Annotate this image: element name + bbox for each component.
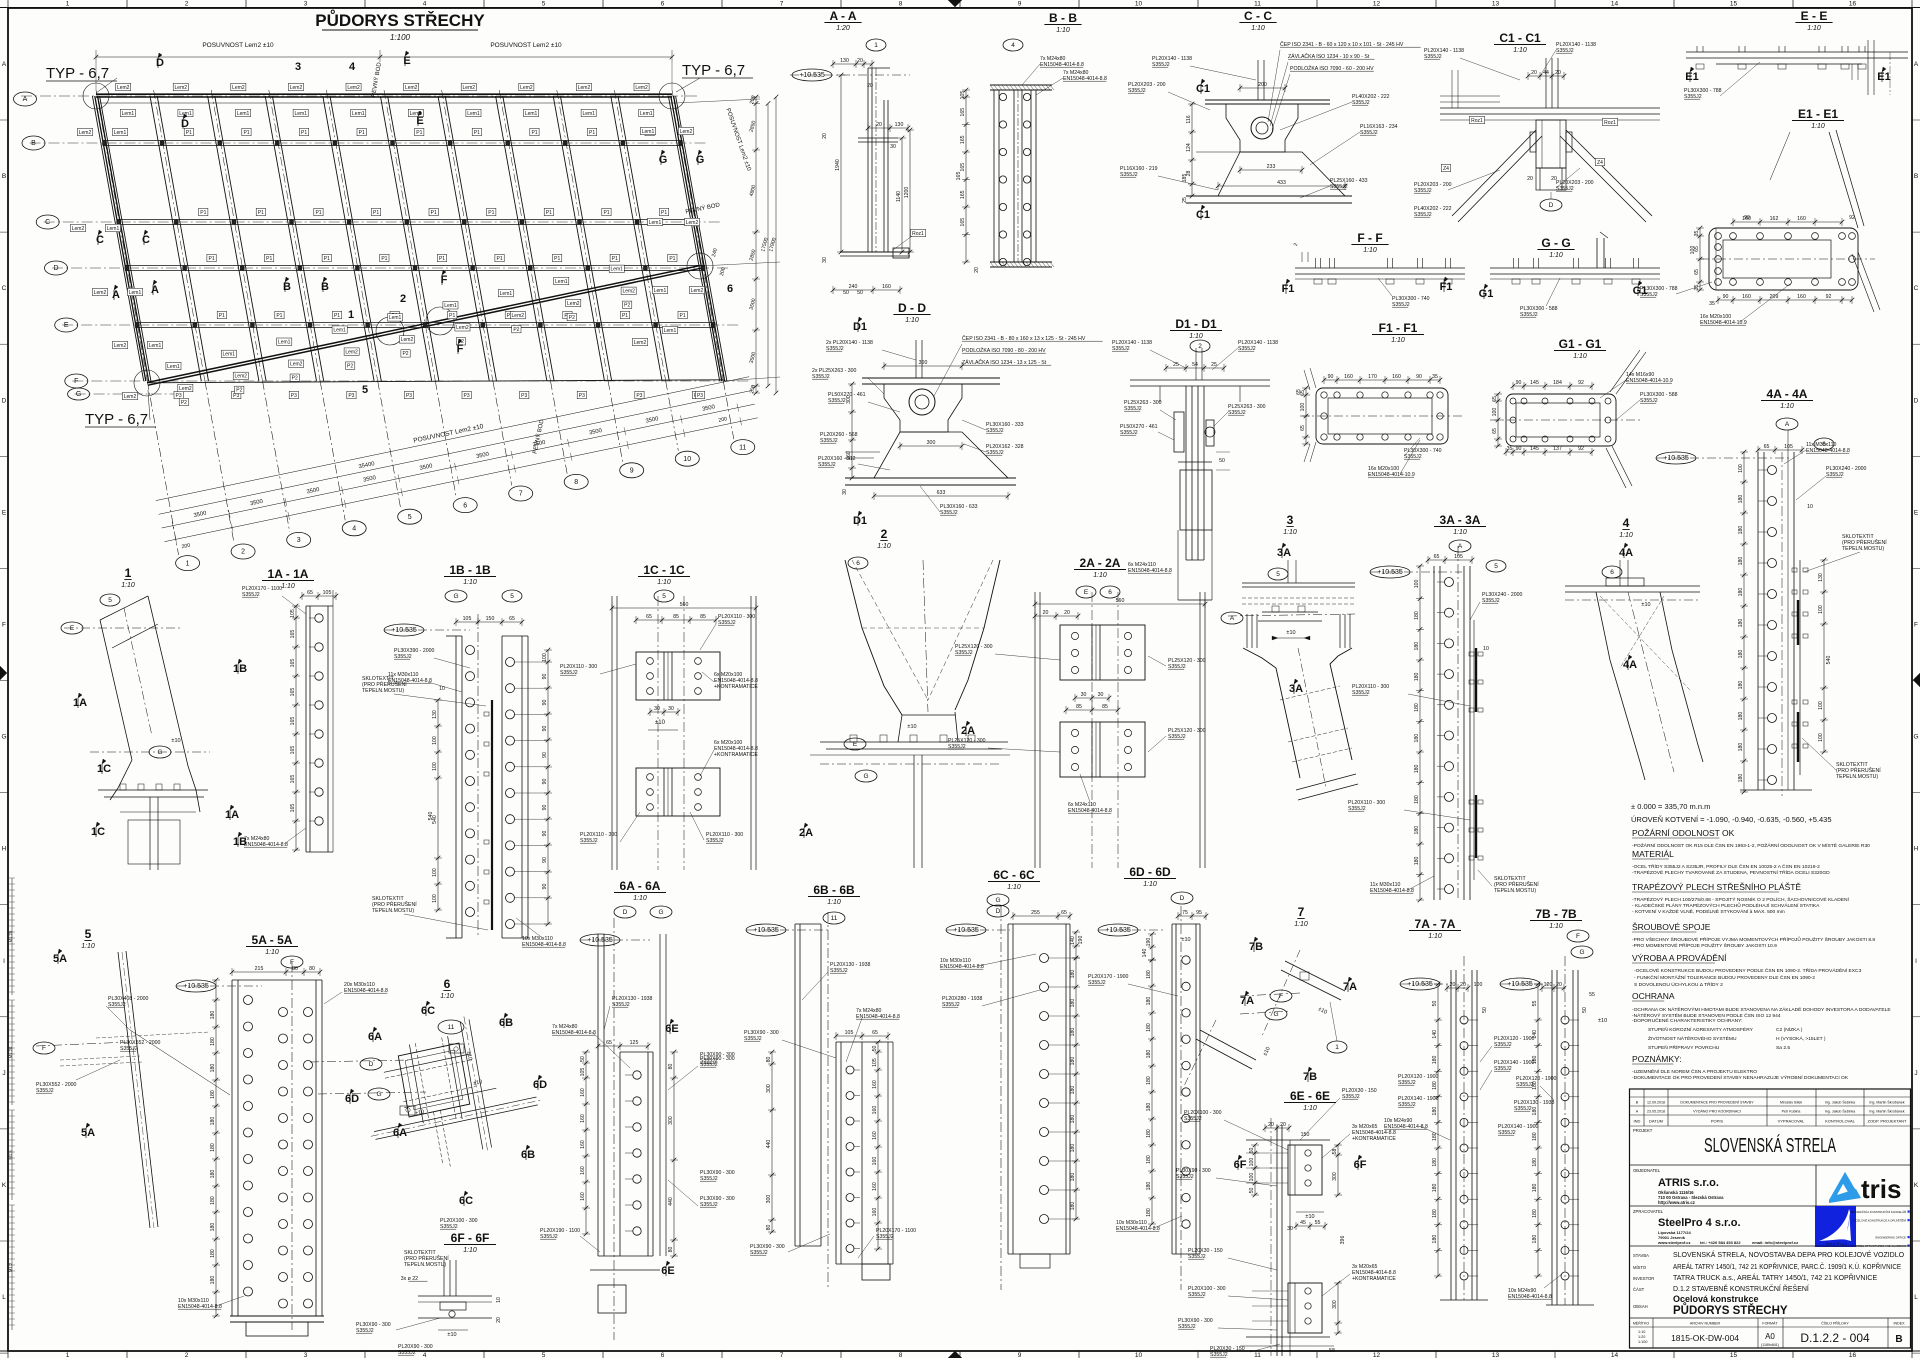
svg-text:http://www.atris.cz: http://www.atris.cz bbox=[1658, 1200, 1695, 1205]
svg-text:P1: P1 bbox=[449, 313, 455, 319]
svg-text:125: 125 bbox=[630, 1040, 639, 1046]
svg-text:C1: C1 bbox=[1196, 209, 1210, 221]
svg-text:180: 180 bbox=[1532, 1107, 1538, 1116]
svg-text:7B - 7B: 7B - 7B bbox=[1535, 907, 1577, 921]
svg-text:65: 65 bbox=[606, 1040, 612, 1046]
plan row oval D bbox=[45, 261, 68, 275]
svg-text:560: 560 bbox=[1116, 598, 1125, 604]
svg-text:±10: ±10 bbox=[1641, 602, 1650, 608]
svg-text:160: 160 bbox=[580, 1166, 586, 1175]
svg-text:(PRO PŘERUŠENÍ: (PRO PŘERUŠENÍ bbox=[362, 680, 407, 688]
svg-text:140: 140 bbox=[1532, 1030, 1538, 1039]
svg-text:180: 180 bbox=[1414, 611, 1420, 620]
svg-text:AREÁL TATRY 1450/1, 742 21 KOP: AREÁL TATRY 1450/1, 742 21 KOPŘIVNICE, P… bbox=[1673, 1262, 1901, 1271]
svg-text:170: 170 bbox=[1368, 374, 1377, 380]
svg-text:165: 165 bbox=[960, 108, 966, 117]
svg-text:165: 165 bbox=[290, 659, 296, 668]
svg-text:Lem2: Lem2 bbox=[72, 226, 85, 232]
plan outline right edge bbox=[671, 96, 722, 381]
svg-text:300: 300 bbox=[766, 1084, 772, 1093]
svg-text:A: A bbox=[1914, 61, 1919, 68]
steelpro logo bbox=[1815, 1206, 1856, 1247]
svg-text:180: 180 bbox=[1070, 1086, 1076, 1095]
svg-text:Lem2: Lem2 bbox=[235, 374, 248, 380]
svg-text:20: 20 bbox=[1450, 982, 1456, 988]
svg-text:P1: P1 bbox=[324, 256, 330, 262]
svg-text:6D - 6D: 6D - 6D bbox=[1129, 865, 1171, 879]
svg-text:130: 130 bbox=[840, 58, 849, 64]
svg-text:2: 2 bbox=[241, 549, 245, 556]
svg-text:P1: P1 bbox=[209, 256, 215, 262]
svg-text:1: 1 bbox=[874, 42, 878, 49]
svg-text:P1: P1 bbox=[359, 130, 365, 136]
svg-text:P1: P1 bbox=[266, 256, 272, 262]
svg-text:6C: 6C bbox=[421, 1005, 435, 1017]
svg-text:ENGINEERING OFFICE: ENGINEERING OFFICE bbox=[1875, 1236, 1906, 1240]
svg-text:POPIS: POPIS bbox=[1711, 1119, 1724, 1124]
svg-text:6: 6 bbox=[1108, 589, 1112, 596]
svg-text:P1: P1 bbox=[439, 256, 445, 262]
plan joint circles on diagonal bbox=[376, 317, 404, 345]
svg-text:1:10: 1:10 bbox=[1549, 923, 1563, 930]
svg-text:-DOPORUČENÉ CHARAKTERISTIKY OC: -DOPORUČENÉ CHARAKTERISTIKY OCHRANY: bbox=[1632, 1017, 1743, 1024]
svg-text:10: 10 bbox=[1135, 1, 1143, 8]
svg-text:80: 80 bbox=[766, 1057, 772, 1063]
svg-text:P3: P3 bbox=[291, 393, 297, 399]
svg-text:P1: P1 bbox=[219, 313, 225, 319]
svg-text:25: 25 bbox=[1182, 197, 1188, 203]
svg-text:ZPRACOVATEL: ZPRACOVATEL bbox=[1633, 1209, 1664, 1214]
svg-text:G1: G1 bbox=[1479, 288, 1494, 300]
svg-text:C: C bbox=[45, 219, 50, 226]
svg-text:Lem1: Lem1 bbox=[664, 328, 677, 334]
svg-text:± 0.000 = 335,70 m.n.m: ± 0.000 = 335,70 m.n.m bbox=[1631, 802, 1710, 811]
svg-text:180: 180 bbox=[1146, 970, 1152, 979]
svg-text:±10: ±10 bbox=[1286, 630, 1295, 636]
svg-text:Lem2: Lem2 bbox=[520, 85, 533, 91]
plan row oval C bbox=[36, 215, 59, 229]
svg-text:90: 90 bbox=[542, 857, 548, 863]
svg-text:1A: 1A bbox=[73, 697, 87, 709]
svg-text:±10: ±10 bbox=[171, 738, 180, 744]
svg-text:tel.: +420 584 453 822: tel.: +420 584 453 822 bbox=[1700, 1240, 1741, 1245]
svg-text:M1:20: M1:20 bbox=[8, 1046, 13, 1058]
svg-text:1:10: 1:10 bbox=[1189, 333, 1203, 340]
svg-text:6: 6 bbox=[463, 502, 467, 509]
svg-text:12: 12 bbox=[1373, 1352, 1381, 1358]
svg-text:7: 7 bbox=[780, 1, 784, 8]
svg-text:160: 160 bbox=[872, 1106, 878, 1115]
svg-text:6A: 6A bbox=[393, 1127, 407, 1139]
svg-text:7: 7 bbox=[519, 491, 523, 498]
svg-text:B: B bbox=[283, 281, 291, 293]
svg-text:11: 11 bbox=[1254, 1, 1261, 8]
svg-text:4: 4 bbox=[349, 61, 356, 73]
svg-text:5: 5 bbox=[85, 927, 92, 941]
svg-text:(PRO PŘERUŠENÍ: (PRO PŘERUŠENÍ bbox=[1494, 880, 1539, 888]
svg-text:300: 300 bbox=[1332, 1172, 1338, 1181]
svg-text:B: B bbox=[1895, 1334, 1902, 1345]
svg-text:165: 165 bbox=[960, 218, 966, 227]
svg-text:G: G bbox=[696, 154, 705, 166]
svg-text:P3: P3 bbox=[697, 393, 703, 399]
svg-text:180: 180 bbox=[1532, 1183, 1538, 1192]
svg-text:30: 30 bbox=[1287, 1226, 1293, 1232]
svg-text:1:10: 1:10 bbox=[1638, 1330, 1645, 1334]
svg-text:1:10: 1:10 bbox=[265, 949, 279, 956]
svg-text:Lem1: Lem1 bbox=[525, 111, 538, 117]
svg-text:S t e e l P r o 4: S t e e l P r o 4 bbox=[1825, 1242, 1846, 1246]
svg-text:20: 20 bbox=[1064, 610, 1070, 616]
svg-text:145: 145 bbox=[1530, 446, 1539, 452]
svg-text:1:10: 1:10 bbox=[463, 1247, 477, 1254]
svg-text:Roz1: Roz1 bbox=[1471, 118, 1483, 124]
svg-text:80: 80 bbox=[668, 1247, 674, 1253]
svg-text:P2: P2 bbox=[292, 376, 298, 382]
svg-text:OBSAH: OBSAH bbox=[1633, 1304, 1648, 1309]
svg-text:20: 20 bbox=[822, 133, 828, 139]
svg-text:165: 165 bbox=[290, 746, 296, 755]
svg-text:Lem2: Lem2 bbox=[456, 325, 469, 331]
svg-text:Z4: Z4 bbox=[1443, 166, 1449, 172]
svg-text:90: 90 bbox=[1328, 374, 1334, 380]
svg-text:D.1.2 STAVEBNĚ KONSTRUKČNÍ ŘEŠ: D.1.2 STAVEBNĚ KONSTRUKČNÍ ŘEŠENÍ bbox=[1673, 1284, 1809, 1293]
svg-text:G - G: G - G bbox=[1541, 236, 1570, 250]
svg-text:1:10: 1:10 bbox=[1811, 123, 1825, 130]
svg-text:105: 105 bbox=[580, 1068, 586, 1077]
svg-text:G: G bbox=[1, 734, 6, 741]
svg-text:100: 100 bbox=[1818, 701, 1824, 710]
svg-text:7B: 7B bbox=[1249, 941, 1263, 953]
svg-text:F1: F1 bbox=[1282, 283, 1295, 295]
svg-text:1B: 1B bbox=[233, 663, 247, 675]
svg-text:4: 4 bbox=[1623, 516, 1630, 530]
svg-text:7: 7 bbox=[1298, 905, 1305, 919]
svg-text:1: 1 bbox=[1335, 1044, 1339, 1051]
svg-text:Lem1: Lem1 bbox=[467, 111, 480, 117]
plan left extra labels bbox=[78, 128, 93, 135]
svg-text:IND: IND bbox=[1634, 1119, 1641, 1124]
svg-text:D: D bbox=[1549, 202, 1554, 209]
svg-text:ČÍSLO PŘÍLOHY: ČÍSLO PŘÍLOHY bbox=[1821, 1321, 1849, 1326]
svg-text:65: 65 bbox=[1434, 554, 1440, 560]
svg-text:-TRAPÉZOVÝ PLECH 100/275/0.88: -TRAPÉZOVÝ PLECH 100/275/0.88 - SPOJITÝ … bbox=[1632, 896, 1850, 903]
svg-text:85: 85 bbox=[700, 614, 706, 620]
svg-text:100: 100 bbox=[1300, 403, 1306, 412]
svg-text:1:10: 1:10 bbox=[81, 943, 95, 950]
svg-text:180: 180 bbox=[1414, 734, 1420, 743]
svg-text:6E - 6E: 6E - 6E bbox=[1290, 1089, 1330, 1103]
svg-text:10: 10 bbox=[1135, 1352, 1143, 1358]
svg-text:D1: D1 bbox=[853, 515, 867, 527]
svg-text:1:10: 1:10 bbox=[1428, 933, 1442, 940]
svg-text:12.09.2018: 12.09.2018 bbox=[1647, 1101, 1665, 1105]
svg-text:P3: P3 bbox=[348, 393, 354, 399]
svg-text:E: E bbox=[853, 741, 858, 748]
svg-text:180: 180 bbox=[210, 1276, 216, 1285]
svg-text:180: 180 bbox=[210, 1090, 216, 1099]
svg-text:G: G bbox=[157, 749, 162, 756]
svg-text:6F: 6F bbox=[1234, 1159, 1247, 1171]
svg-text:C1: C1 bbox=[1196, 83, 1210, 95]
svg-text:P1: P1 bbox=[276, 313, 282, 319]
svg-text:5: 5 bbox=[1494, 563, 1498, 570]
svg-text:396: 396 bbox=[1340, 1236, 1346, 1245]
svg-text:P1: P1 bbox=[661, 210, 667, 216]
svg-text:D: D bbox=[369, 1061, 374, 1068]
plan grid number circle 11 bbox=[731, 440, 755, 455]
svg-text:105: 105 bbox=[872, 1058, 878, 1067]
svg-text:SLOVENSKÁ STRELA: SLOVENSKÁ STRELA bbox=[1704, 1134, 1836, 1157]
svg-text:INVESTOR: INVESTOR bbox=[1633, 1276, 1654, 1281]
svg-text:1:10: 1:10 bbox=[1619, 532, 1633, 539]
svg-text:C - C: C - C bbox=[1244, 9, 1272, 23]
svg-text:Lem2: Lem2 bbox=[401, 337, 414, 343]
svg-text:55: 55 bbox=[1589, 992, 1595, 998]
svg-text:90: 90 bbox=[1516, 380, 1522, 386]
fold marks bbox=[948, 0, 962, 7]
svg-text:1:10: 1:10 bbox=[121, 582, 135, 589]
svg-text:30: 30 bbox=[842, 489, 848, 495]
svg-text:11: 11 bbox=[448, 1024, 455, 1031]
svg-text:POSUVNOST Lem2 ±10: POSUVNOST Lem2 ±10 bbox=[490, 42, 562, 49]
svg-text:Ing. Jakub Šešinka: Ing. Jakub Šešinka bbox=[1825, 1109, 1855, 1114]
svg-text:50: 50 bbox=[1432, 1001, 1438, 1007]
svg-text:1: 1 bbox=[348, 309, 354, 321]
svg-text:10: 10 bbox=[496, 1297, 502, 1303]
svg-text:2: 2 bbox=[185, 1, 189, 8]
svg-text:SLOVENSKÁ STRELA, NOVOSTAVBA D: SLOVENSKÁ STRELA, NOVOSTAVBA DEPA PRO KO… bbox=[1673, 1250, 1905, 1259]
svg-text:±10: ±10 bbox=[1181, 937, 1190, 943]
svg-text:440: 440 bbox=[668, 1197, 674, 1206]
svg-text:Lem1: Lem1 bbox=[122, 111, 135, 117]
svg-text:D: D bbox=[623, 909, 628, 916]
svg-text:90: 90 bbox=[542, 779, 548, 785]
svg-text:Lem1: Lem1 bbox=[389, 315, 402, 321]
bottom ruler bbox=[7, 1351, 9, 1358]
svg-text:F1 - F1: F1 - F1 bbox=[1379, 321, 1418, 335]
svg-text:180: 180 bbox=[1432, 1107, 1438, 1116]
svg-text:105: 105 bbox=[1784, 444, 1793, 450]
plan row oval E bbox=[55, 318, 78, 332]
plan connector extension lines right bbox=[676, 99, 760, 103]
svg-text:180: 180 bbox=[210, 1037, 216, 1046]
svg-text:160: 160 bbox=[580, 1088, 586, 1097]
svg-text:P3: P3 bbox=[406, 393, 412, 399]
svg-text:Lem2: Lem2 bbox=[179, 386, 192, 392]
svg-text:INDEX: INDEX bbox=[1894, 1322, 1906, 1326]
svg-text:100: 100 bbox=[1690, 246, 1696, 255]
svg-text:1A: 1A bbox=[225, 809, 239, 821]
plan right dimension chain bbox=[755, 97, 757, 393]
svg-text:6C - 6C: 6C - 6C bbox=[993, 868, 1035, 882]
svg-text:100: 100 bbox=[432, 736, 438, 745]
svg-text:(1189x841): (1189x841) bbox=[1761, 1343, 1779, 1347]
svg-text:35: 35 bbox=[1694, 231, 1700, 237]
svg-text:180: 180 bbox=[1146, 1023, 1152, 1032]
svg-text:KONTROLOVAL: KONTROLOVAL bbox=[1825, 1119, 1855, 1124]
stavba rows bbox=[1630, 1245, 1911, 1247]
svg-text:180: 180 bbox=[1738, 681, 1744, 690]
svg-text:B: B bbox=[1914, 173, 1918, 180]
svg-text:C: C bbox=[2, 285, 7, 292]
svg-text:M1:2: M1:2 bbox=[8, 1262, 13, 1272]
svg-text:30: 30 bbox=[890, 144, 896, 150]
svg-text:Lem1: Lem1 bbox=[352, 111, 365, 117]
svg-text:5A: 5A bbox=[81, 1127, 95, 1139]
svg-text:160: 160 bbox=[872, 1208, 878, 1217]
svg-text:180: 180 bbox=[1738, 526, 1744, 535]
svg-text:C: C bbox=[142, 234, 150, 246]
svg-text:F - F: F - F bbox=[1357, 231, 1382, 245]
svg-text:M1:5: M1:5 bbox=[8, 1150, 13, 1160]
svg-text:Lem1: Lem1 bbox=[444, 303, 457, 309]
svg-text:4: 4 bbox=[352, 526, 356, 533]
svg-text:A0: A0 bbox=[1765, 1332, 1775, 1341]
svg-text:95: 95 bbox=[1196, 910, 1202, 916]
svg-text:B - B: B - B bbox=[1049, 11, 1077, 25]
svg-text:5: 5 bbox=[362, 384, 368, 396]
svg-text:TATRA TRUCK a.s., AREÁL TATRY: TATRA TRUCK a.s., AREÁL TATRY 1450/1, 74… bbox=[1673, 1273, 1877, 1282]
svg-text:160: 160 bbox=[1344, 374, 1353, 380]
svg-text:100: 100 bbox=[432, 894, 438, 903]
svg-text:140: 140 bbox=[1142, 949, 1148, 958]
svg-text:124: 124 bbox=[1186, 143, 1192, 152]
svg-text:6C: 6C bbox=[459, 1195, 473, 1207]
svg-text:P3: P3 bbox=[579, 393, 585, 399]
svg-text:Lem1: Lem1 bbox=[555, 279, 568, 285]
svg-text:180: 180 bbox=[1146, 1208, 1152, 1217]
svg-text:9: 9 bbox=[1018, 1, 1022, 8]
svg-text:1:10: 1:10 bbox=[440, 993, 454, 1000]
svg-text:150: 150 bbox=[1301, 1132, 1310, 1138]
svg-text:9: 9 bbox=[630, 468, 634, 475]
svg-text:50: 50 bbox=[1249, 1188, 1255, 1194]
svg-text:5: 5 bbox=[408, 514, 412, 521]
svg-text:Lem1: Lem1 bbox=[278, 340, 291, 346]
svg-text:L: L bbox=[2, 1294, 6, 1301]
svg-text:1:10: 1:10 bbox=[1573, 353, 1587, 360]
svg-text:6: 6 bbox=[444, 977, 451, 991]
svg-text:P1: P1 bbox=[334, 313, 340, 319]
svg-text:180: 180 bbox=[1532, 1055, 1538, 1064]
plan grid number circle 10 bbox=[675, 451, 699, 466]
svg-text:58: 58 bbox=[1332, 1149, 1338, 1155]
svg-text:MATERIÁL: MATERIÁL bbox=[1632, 849, 1674, 859]
svg-text:30: 30 bbox=[654, 706, 660, 712]
svg-text:50: 50 bbox=[872, 1046, 878, 1052]
svg-text:165: 165 bbox=[960, 135, 966, 144]
svg-text:90: 90 bbox=[542, 726, 548, 732]
svg-text:80: 80 bbox=[309, 966, 315, 972]
svg-text:100: 100 bbox=[1474, 982, 1483, 988]
plan grid number circle 9 bbox=[620, 463, 644, 478]
svg-text:540: 540 bbox=[428, 812, 434, 821]
svg-text:50: 50 bbox=[857, 290, 863, 296]
svg-text:±10: ±10 bbox=[907, 724, 916, 730]
svg-text:1:10: 1:10 bbox=[1093, 572, 1107, 579]
svg-text:ÚROVEŇ KOTVENÍ = -1.090, -0.94: ÚROVEŇ KOTVENÍ = -1.090, -0.940, -0.635,… bbox=[1631, 815, 1832, 824]
svg-text:3A: 3A bbox=[1289, 683, 1303, 695]
svg-text:180: 180 bbox=[1146, 1050, 1152, 1059]
svg-text:P1: P1 bbox=[431, 210, 437, 216]
svg-text:STUPEŇ KOROZNÍ AGRESIVITY ATMO: STUPEŇ KOROZNÍ AGRESIVITY ATMOSFÉRY bbox=[1648, 1026, 1754, 1033]
svg-text:C: C bbox=[1914, 285, 1919, 292]
svg-text:Lem1: Lem1 bbox=[129, 290, 142, 296]
svg-text:Lem1: Lem1 bbox=[654, 288, 667, 294]
svg-text:+10.535: +10.535 bbox=[1663, 455, 1689, 462]
svg-text:VYDÁNO PRO KOORDINACI: VYDÁNO PRO KOORDINACI bbox=[1693, 1110, 1741, 1114]
svg-text:433: 433 bbox=[1277, 180, 1286, 186]
svg-text:P3: P3 bbox=[521, 393, 527, 399]
svg-text:4A: 4A bbox=[1623, 659, 1637, 671]
plan grid number circle 6 bbox=[453, 498, 477, 513]
svg-text:G1 - G1: G1 - G1 bbox=[1559, 337, 1602, 351]
svg-text:P1: P1 bbox=[243, 130, 249, 136]
svg-text:1C: 1C bbox=[97, 763, 111, 775]
svg-text:F: F bbox=[1576, 933, 1580, 940]
svg-text:D1 - D1: D1 - D1 bbox=[1175, 317, 1217, 331]
svg-text:1: 1 bbox=[186, 560, 190, 567]
svg-text:180: 180 bbox=[210, 1170, 216, 1179]
svg-text:11: 11 bbox=[1254, 1352, 1261, 1358]
svg-text:Lem2: Lem2 bbox=[680, 129, 693, 135]
plan outline left edge bbox=[95, 96, 146, 381]
svg-text:+10.535: +10.535 bbox=[1507, 981, 1533, 988]
svg-text:3: 3 bbox=[295, 61, 301, 73]
svg-text:6F: 6F bbox=[1354, 1159, 1367, 1171]
svg-text:K: K bbox=[1914, 1182, 1919, 1189]
plan boxed labels bbox=[116, 83, 131, 90]
svg-text:FORMÁT: FORMÁT bbox=[1762, 1322, 1778, 1326]
svg-text:D: D bbox=[1180, 895, 1185, 902]
svg-text:H: H bbox=[2, 846, 7, 853]
svg-text:I: I bbox=[3, 958, 5, 965]
svg-text:1:10: 1:10 bbox=[1283, 529, 1297, 536]
svg-text:130: 130 bbox=[895, 122, 904, 128]
svg-text:180: 180 bbox=[1414, 826, 1420, 835]
svg-text:180: 180 bbox=[1414, 703, 1420, 712]
svg-text:180: 180 bbox=[1414, 856, 1420, 865]
svg-text:75: 75 bbox=[1182, 910, 1188, 916]
svg-text:180: 180 bbox=[1070, 1028, 1076, 1037]
svg-text:1:10: 1:10 bbox=[1549, 252, 1563, 259]
plan grid verticals 1-11 bbox=[92, 96, 143, 381]
svg-text:- KLADEČSKÉ PLÁNY TRAPÉZOVÝCH: - KLADEČSKÉ PLÁNY TRAPÉZOVÝCH PLECHŮ POD… bbox=[1632, 902, 1820, 909]
svg-text:1:10: 1:10 bbox=[1807, 25, 1821, 32]
svg-text:6B: 6B bbox=[521, 1149, 535, 1161]
svg-text:180: 180 bbox=[1532, 1235, 1538, 1244]
svg-text:85: 85 bbox=[1102, 704, 1108, 710]
svg-text:Lem2: Lem2 bbox=[634, 340, 647, 346]
plan row oval F bbox=[65, 374, 88, 388]
plan grid rows A-F bbox=[21, 95, 700, 97]
svg-text:A: A bbox=[151, 284, 159, 296]
svg-text:TEPELN.MOSTU): TEPELN.MOSTU) bbox=[1836, 774, 1878, 780]
svg-text:215: 215 bbox=[255, 966, 264, 972]
svg-text:C2 (NÍZKA ): C2 (NÍZKA ) bbox=[1776, 1026, 1803, 1033]
svg-text:90: 90 bbox=[1416, 374, 1422, 380]
svg-text:6E: 6E bbox=[665, 1023, 678, 1035]
svg-text:1140: 1140 bbox=[896, 191, 902, 202]
svg-text:6: 6 bbox=[856, 560, 860, 567]
svg-text:180: 180 bbox=[210, 1143, 216, 1152]
svg-text:180: 180 bbox=[1414, 642, 1420, 651]
svg-text:6E: 6E bbox=[661, 1265, 674, 1277]
svg-text:E: E bbox=[2, 509, 7, 516]
plan row oval A bbox=[14, 92, 37, 106]
svg-text:4: 4 bbox=[1011, 42, 1015, 49]
